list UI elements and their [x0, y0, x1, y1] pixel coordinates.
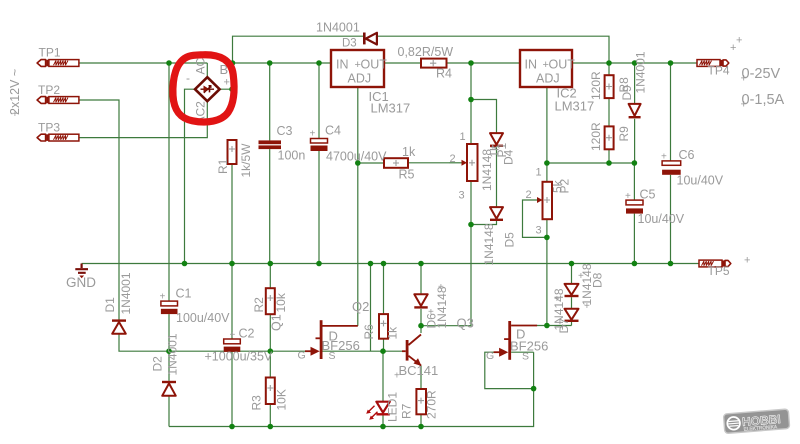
wire C4 bottom to GND rail — [318, 151, 320, 264]
wire P1 pin3 — [470, 181, 472, 225]
wire R7 bottom to bottom rail — [420, 414, 422, 426]
capacitor C1 100u/40V — [161, 301, 178, 314]
svg-text:1: 1 — [460, 131, 466, 143]
svg-text:10u/40V: 10u/40V — [677, 174, 724, 188]
wire GND rail — [82, 263, 699, 265]
svg-text:270R: 270R — [425, 390, 439, 419]
svg-text:100u/40V: 100u/40V — [176, 311, 230, 325]
wire D2 anode to bottom rail — [168, 396, 170, 427]
test point TP4 — [697, 60, 729, 67]
junction node at 319,63 — [316, 60, 322, 66]
wire P1 pin1 node to D4 — [471, 100, 497, 134]
junction node at 609,163 — [606, 160, 612, 166]
svg-text:D1: D1 — [103, 297, 117, 313]
LED LED1 — [366, 402, 390, 420]
resistor R7 270R — [416, 389, 426, 414]
junction node at 634.4,263.5 — [632, 261, 638, 267]
svg-text:R6: R6 — [362, 324, 376, 340]
wire C3 bottom to GND rail — [269, 149, 271, 263]
svg-text:+: + — [736, 35, 742, 47]
svg-text:IN: IN — [525, 58, 538, 72]
junction node at 184.5,263.5 — [182, 261, 188, 267]
svg-text:BF256: BF256 — [322, 338, 360, 353]
junction node at 232,89.2 — [229, 86, 235, 92]
svg-text:R2: R2 — [252, 297, 266, 313]
svg-text:C3: C3 — [277, 124, 293, 138]
wire R2 top to GND rail — [269, 264, 271, 289]
svg-text:R7: R7 — [400, 403, 414, 419]
wire D3 anode to IC2 out node — [377, 36, 609, 63]
svg-text:1: 1 — [536, 167, 542, 179]
junction node at 232,263.5 — [229, 261, 235, 267]
svg-text:1N4001: 1N4001 — [119, 272, 133, 314]
svg-text:+: + — [578, 271, 584, 282]
svg-text:10k: 10k — [274, 292, 288, 312]
wire TP2 to D1 — [79, 100, 119, 320]
svg-text:D2: D2 — [151, 356, 165, 372]
svg-text:0,82R/5W: 0,82R/5W — [398, 45, 454, 59]
wire D9 bottom to ADJ rail — [634, 119, 636, 163]
resistor R4 0,82R/5W — [421, 59, 447, 68]
wire R3 bottom to bottom rail — [269, 404, 271, 427]
svg-text:ADJ: ADJ — [348, 72, 372, 86]
wire C1 bottom to node X — [168, 314, 170, 351]
wire BC141 emitter to R7 — [420, 366, 422, 390]
wire C4 top — [318, 63, 320, 139]
wire top rail TP1 to bridge AC1 — [79, 62, 207, 64]
wire R2 bottom to gate node — [269, 314, 271, 351]
annotation red circle around bridge — [173, 55, 234, 122]
wire C2 bottom to bottom rail — [231, 351, 233, 427]
svg-text:D7: D7 — [557, 318, 571, 334]
svg-text:R4: R4 — [436, 67, 452, 81]
svg-text:C2: C2 — [239, 327, 255, 341]
svg-text:R5: R5 — [399, 168, 415, 182]
junction node at 421,263.5 — [418, 261, 424, 267]
junction node at 232.5,63 — [230, 60, 236, 66]
svg-text:C4: C4 — [325, 124, 341, 138]
junction node at 471,99.5 — [468, 97, 474, 103]
wire D8 D7 link — [571, 297, 573, 309]
resistor R1 1k/5W — [228, 140, 237, 164]
svg-text:10K: 10K — [275, 389, 289, 410]
diode D4 1N4148 — [490, 133, 503, 146]
wire R9 bottom to ADJ rail — [608, 149, 610, 163]
watermark logo — [723, 409, 789, 434]
junction node at 670.5,63 — [668, 60, 674, 66]
svg-text:C5: C5 — [640, 188, 656, 202]
test point TP3 — [37, 134, 79, 141]
capacitor C3 100n — [259, 140, 282, 149]
svg-text:Q1: Q1 — [270, 314, 284, 331]
junction node at 421,325.7 — [418, 323, 424, 329]
wire gate node to R3 — [269, 351, 271, 377]
svg-text:G: G — [486, 350, 494, 362]
wire D3 bypass line — [233, 36, 365, 63]
svg-text:OUT: OUT — [549, 58, 576, 72]
wire C2 top to GND rail — [231, 264, 233, 340]
resistor R3 10K — [266, 378, 275, 405]
junction node at 270.3,426.5 — [268, 424, 274, 430]
diode D2 1N4001 — [162, 382, 176, 396]
svg-text:1N4001: 1N4001 — [316, 21, 360, 35]
potentiometer P1 1k — [449, 144, 478, 181]
svg-text:+: + — [554, 294, 560, 305]
resistor R5 1k — [384, 158, 408, 168]
svg-text:+1000u/35V: +1000u/35V — [205, 350, 273, 364]
svg-text:C1: C1 — [176, 287, 192, 301]
diode D9 1N4001 — [629, 104, 641, 117]
svg-text:R9: R9 — [617, 126, 631, 142]
svg-text:2: 2 — [526, 189, 532, 201]
wire R5 right to P1 wiper — [408, 162, 449, 164]
wire D1 anode to node X — [119, 334, 169, 351]
junction node at 370.5,263.5 — [368, 261, 374, 267]
svg-text:+: + — [744, 255, 750, 267]
svg-text:10u/40V: 10u/40V — [638, 212, 685, 226]
wire IC1 ADJ down to R5 node — [357, 87, 359, 163]
wire node X to Q1 gate — [169, 350, 306, 352]
wire base node to BC141 base — [383, 350, 403, 352]
wire bridge minus down to GND rail — [185, 89, 196, 263]
wire R5 node down to Q1 drain — [357, 163, 359, 326]
junction node at 533.6,388.6 — [531, 386, 537, 392]
svg-text:1N4001: 1N4001 — [634, 51, 648, 93]
wire D6 anode to node — [420, 309, 422, 326]
svg-text:GND: GND — [66, 275, 96, 290]
wire P2 pin1 — [546, 163, 548, 182]
junction node at 270.3,263.5 — [268, 261, 274, 267]
resistor R8 120R — [605, 75, 614, 98]
ground symbol GND — [75, 264, 88, 279]
svg-text:D9: D9 — [620, 85, 634, 101]
svg-text:+: + — [625, 191, 631, 202]
svg-text:Q3: Q3 — [457, 316, 474, 331]
svg-text:S: S — [329, 350, 336, 362]
svg-text:S: S — [522, 351, 529, 363]
wire C5 bottom to GND rail — [633, 214, 635, 264]
svg-text:+: + — [490, 143, 496, 154]
capacitor C2 1000u/35V — [224, 339, 241, 352]
svg-text:TP5: TP5 — [708, 264, 730, 278]
wire Q3 gate loop — [485, 352, 534, 388]
junction node at 383,426.5 — [380, 424, 386, 430]
wire bridge plus to rail and R1 — [220, 63, 232, 89]
svg-text:+: + — [741, 99, 747, 111]
junction node at 546.9,163 — [544, 160, 550, 166]
svg-text:R1: R1 — [216, 158, 230, 174]
svg-text:BF256: BF256 — [510, 339, 548, 354]
wire base node down to LED1 — [382, 351, 384, 402]
wire Q1 source to base node — [323, 350, 384, 352]
svg-text:+: + — [224, 77, 230, 89]
svg-text:4700u/40V: 4700u/40V — [326, 150, 387, 164]
svg-text:1N4148: 1N4148 — [482, 223, 496, 265]
wire R1 bottom to GND rail — [231, 164, 233, 264]
wire R8 to R9 — [608, 98, 610, 126]
transistor Q1 BF256 — [305, 320, 358, 359]
wire IC2 OUT to TP4 — [572, 62, 698, 64]
test point TP1 — [37, 60, 79, 67]
wire P2 node down to Q3 drain — [546, 237, 548, 325]
svg-text:0-25V: 0-25V — [742, 66, 781, 82]
svg-text:G: G — [298, 350, 306, 362]
wire R5 left lead — [358, 162, 384, 164]
svg-text:LED1: LED1 — [386, 392, 400, 422]
op-amp regulator IC1 LM317 box — [331, 50, 384, 87]
wire R6 top to GND rail — [383, 264, 385, 315]
svg-text:D8: D8 — [591, 272, 605, 288]
junction node at 471,224.5 — [468, 222, 474, 228]
junction node at 270.3,351.2 — [268, 348, 274, 354]
svg-text:D5: D5 — [503, 232, 517, 248]
wire R6 bottom to base node — [383, 339, 385, 352]
wire D6 top to GND rail — [420, 264, 422, 295]
svg-text:Q2: Q2 — [352, 299, 369, 314]
svg-text:3: 3 — [536, 225, 542, 237]
wire IC2 ADJ down — [546, 87, 548, 163]
potentiometer P2 5k — [537, 182, 552, 219]
diode D8 1N4148 — [565, 284, 579, 296]
svg-text:BC141: BC141 — [399, 363, 439, 378]
svg-text:R3: R3 — [250, 395, 264, 411]
junction node at 546.9,325.5 — [544, 323, 550, 329]
svg-text:0-1,5A: 0-1,5A — [742, 92, 785, 108]
svg-text:TP3: TP3 — [38, 121, 60, 135]
junction node at 169,63 — [166, 60, 172, 66]
svg-text:IN: IN — [336, 58, 349, 72]
svg-text:D3: D3 — [342, 38, 357, 50]
svg-text:P2: P2 — [558, 178, 572, 193]
svg-text:1k: 1k — [386, 326, 400, 340]
wire P1 node down to D6 node — [421, 225, 471, 326]
svg-text:120R: 120R — [589, 122, 603, 151]
junction node at 232,426.5 — [229, 424, 235, 430]
wire node X to D2 — [168, 351, 170, 381]
resistor R2 10k — [266, 288, 275, 314]
svg-text:TP2: TP2 — [38, 83, 60, 97]
wire R8 top — [608, 63, 610, 75]
wire top rail bridge+ to IC1 IN — [233, 62, 332, 64]
bridge rectifier B — [195, 77, 220, 101]
wire D8 top to GND rail — [571, 264, 573, 284]
diode D7 1N4148 — [565, 309, 579, 321]
wire AC line down to C1 — [168, 63, 170, 301]
wire D9 top — [634, 63, 636, 104]
junction node at 634.6,63 — [632, 60, 638, 66]
wire C6 top to output — [670, 63, 672, 161]
svg-text:OUT: OUT — [361, 58, 388, 72]
wire LED1 cathode to bottom rail — [382, 416, 384, 427]
transistor Q2 BC141 — [402, 335, 422, 367]
wire D5 anode to P1 pin3 node — [471, 221, 497, 225]
svg-text:TP1: TP1 — [39, 46, 61, 60]
svg-text:C6: C6 — [679, 148, 695, 162]
junction node at 319,263.5 — [316, 261, 322, 267]
wire D4 to D5 — [496, 147, 498, 207]
svg-text:+: + — [741, 73, 747, 85]
resistor R9 120R — [605, 126, 614, 149]
svg-text:-: - — [186, 71, 190, 85]
junction node at 169,351.2 — [166, 348, 172, 354]
capacitor C5 10u/40V — [626, 200, 643, 213]
junction node at 421,426.5 — [418, 424, 424, 430]
svg-text:+: + — [230, 330, 236, 341]
wire R4 to IC2 IN — [447, 62, 521, 64]
wire GND rail to base node — [370, 264, 372, 352]
junction node at 546.9,237.4 — [544, 235, 550, 241]
wire ADJ rail to C5 — [547, 162, 635, 164]
transistor Q3 BF256 — [494, 321, 537, 360]
svg-text:1N4001: 1N4001 — [166, 333, 180, 375]
svg-text:LM317: LM317 — [371, 101, 411, 116]
junction node at 670.5,263.5 — [668, 261, 674, 267]
junction node at 609,63 — [606, 60, 612, 66]
svg-text:+: + — [12, 109, 18, 120]
wire C5 top — [633, 163, 635, 200]
resistor R6 1k — [379, 314, 388, 339]
svg-text:1k/5W: 1k/5W — [239, 143, 253, 178]
wire D7 anode down — [571, 322, 573, 326]
diode D5 1N4148 — [490, 207, 503, 220]
wire bridge AC2 to TP3 — [79, 101, 207, 137]
capacitor C4 4700u/40V — [311, 139, 328, 152]
junction node at 383,351.2 — [380, 348, 386, 354]
junction node at 571.5,263.5 — [569, 261, 575, 267]
junction node at 634.4,163 — [632, 160, 638, 166]
capacitor C6 10u/40V — [662, 161, 681, 175]
junction node at 383.5,263.5 — [381, 261, 387, 267]
wire P2 wiper loop — [523, 200, 547, 237]
svg-text:+: + — [661, 152, 667, 163]
wire D6 node to BC141 collector — [420, 326, 422, 333]
svg-text:1k: 1k — [402, 145, 416, 159]
svg-text:3: 3 — [459, 190, 465, 202]
svg-text:2: 2 — [450, 153, 456, 165]
wire Q3 source down — [533, 352, 535, 388]
test point TP2 — [37, 97, 79, 104]
svg-text:ADJ: ADJ — [536, 72, 560, 86]
diode D6 1N4148 — [414, 294, 427, 307]
svg-text:+: + — [438, 282, 444, 293]
diode D3 1N4001 — [364, 33, 377, 45]
svg-text:+: + — [428, 307, 434, 318]
svg-text:TP4: TP4 — [708, 64, 730, 78]
svg-text:+: + — [584, 301, 590, 312]
junction node at 357.8,163 — [355, 160, 361, 166]
svg-text:+: + — [394, 371, 400, 382]
wire bridge AC1 pin — [206, 63, 208, 77]
junction node at 471,63 — [468, 60, 474, 66]
svg-text:+: + — [310, 129, 316, 140]
junction node at 269.7,63 — [267, 60, 273, 66]
wire IC1 OUT to R4 — [384, 62, 421, 64]
svg-text:+: + — [160, 292, 166, 303]
svg-text:120R: 120R — [589, 71, 603, 100]
diode D1 1N4001 — [112, 321, 126, 334]
test point TP5 — [699, 260, 731, 267]
wire C6 bottom to GND rail — [670, 175, 672, 264]
svg-text:P1: P1 — [495, 142, 509, 157]
op-amp regulator IC2 LM317 box — [520, 50, 572, 87]
wire Q3 drain to D7 node — [537, 325, 572, 327]
wire output node down to P1 pin1 — [470, 63, 472, 144]
wire C3 top — [269, 63, 271, 140]
wire P2 pin3 — [546, 219, 548, 237]
svg-text:100n: 100n — [278, 149, 306, 163]
wire bottom negative rail — [169, 389, 534, 427]
